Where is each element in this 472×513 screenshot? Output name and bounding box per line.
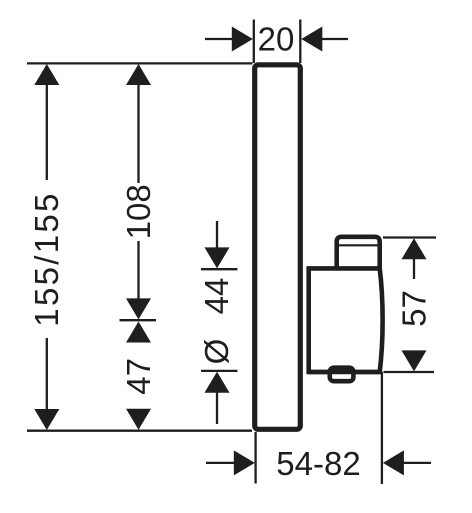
svg-text:47: 47 <box>120 358 157 395</box>
dim-54-82 arrow pointing left <box>383 450 404 475</box>
dim-54-82 leader left <box>206 462 234 464</box>
dim-20 arrow pointing right <box>232 27 253 52</box>
dim-54-82 left extension line <box>254 432 256 484</box>
svg-text:20: 20 <box>258 21 295 58</box>
dim-155 arrow down <box>34 409 59 430</box>
dim-57 arrow up <box>402 238 427 259</box>
dim-155 arrow up <box>34 64 59 85</box>
dim-54-82 leader right <box>403 462 431 464</box>
dim-108 arrow up <box>126 64 151 85</box>
dim-20 extension line left <box>253 20 255 64</box>
dim-57 arrow down <box>402 350 427 371</box>
handle knob top section <box>337 237 380 269</box>
dim-47 arrow down <box>126 409 151 430</box>
handle body <box>309 268 383 372</box>
svg-text:54-82: 54-82 <box>276 445 360 482</box>
svg-text:108: 108 <box>120 184 157 239</box>
dim-44 top tick <box>201 268 238 270</box>
dim-155 line lower stem <box>46 338 48 410</box>
dim-44 arrow down <box>205 247 230 268</box>
dim-54-82 arrow pointing right <box>234 450 255 475</box>
dim-44 arrow up <box>205 372 230 393</box>
dim-44 lower stem <box>216 392 218 424</box>
dim-54-82 right extension line <box>381 372 383 484</box>
dim-155 top extension line <box>27 62 253 64</box>
dim-108/47 tick <box>120 319 157 321</box>
dim-57 upper stem <box>413 259 415 279</box>
dim-47 arrow up <box>126 322 151 343</box>
dim-44 bottom tick <box>201 370 238 372</box>
dim-108 lower stem <box>137 241 139 300</box>
dim-20 extension line right <box>299 20 301 64</box>
dim-108 upper stem <box>137 84 139 183</box>
svg-text:44: 44 <box>198 278 235 315</box>
dim-155 bottom extension line <box>27 430 252 432</box>
dim-57 bottom extension line <box>384 371 435 373</box>
bottom tab <box>330 368 354 382</box>
dim-155 line upper stem <box>46 84 48 180</box>
svg-text:57: 57 <box>396 290 433 327</box>
dim-20 leader left <box>205 38 233 40</box>
handle knob inner line <box>339 244 378 246</box>
dim-44 upper stem <box>216 221 218 250</box>
handle body bottom edge over tab <box>309 370 380 375</box>
dim-57 top extension line <box>383 236 436 238</box>
dim-20 leader right <box>321 38 348 40</box>
escutcheon plate (side view) <box>255 65 301 430</box>
svg-text:Ø: Ø <box>198 339 235 365</box>
dim-20 arrow pointing left <box>301 27 322 52</box>
dim-108 arrow down <box>126 298 151 319</box>
svg-text:155/155: 155/155 <box>28 191 65 326</box>
